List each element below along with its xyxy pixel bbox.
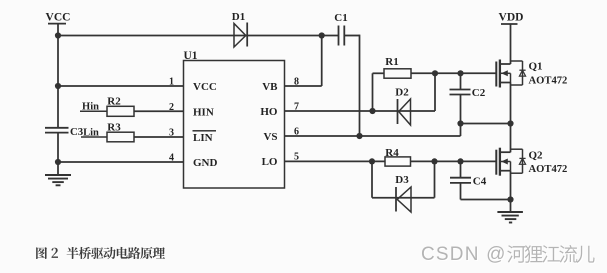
svg-text:D1: D1 [232, 11, 245, 23]
svg-text:VCC: VCC [193, 81, 217, 93]
svg-text:4: 4 [169, 153, 174, 164]
svg-text:R4: R4 [385, 147, 399, 159]
svg-text:D2: D2 [395, 86, 409, 98]
svg-text:D3: D3 [395, 174, 409, 186]
svg-text:CSDN @: CSDN @ [421, 244, 507, 265]
svg-text:LO: LO [262, 156, 278, 168]
svg-text:VB: VB [262, 81, 278, 93]
svg-text:Q1: Q1 [529, 60, 543, 72]
svg-text:C2: C2 [472, 87, 486, 99]
svg-text:HIN: HIN [193, 106, 214, 118]
svg-text:R1: R1 [385, 56, 398, 68]
svg-text:VCC: VCC [46, 12, 71, 24]
svg-text:2: 2 [169, 102, 174, 113]
svg-text:1: 1 [169, 77, 174, 88]
svg-text:C4: C4 [473, 175, 487, 187]
svg-text:VS: VS [263, 131, 277, 143]
svg-text:AOT472: AOT472 [529, 164, 568, 175]
svg-text:Q2: Q2 [529, 149, 544, 161]
svg-text:U1: U1 [184, 50, 198, 62]
svg-text:GND: GND [193, 157, 218, 169]
svg-text:R2: R2 [107, 96, 121, 108]
svg-text:VDD: VDD [499, 12, 524, 24]
svg-text:R3: R3 [107, 122, 121, 134]
svg-text:AOT472: AOT472 [529, 75, 568, 86]
svg-text:C1: C1 [334, 12, 347, 24]
svg-text:LIN: LIN [193, 132, 213, 144]
svg-text:C3: C3 [70, 126, 84, 138]
svg-text:HO: HO [260, 106, 278, 118]
svg-text:3: 3 [169, 128, 174, 139]
